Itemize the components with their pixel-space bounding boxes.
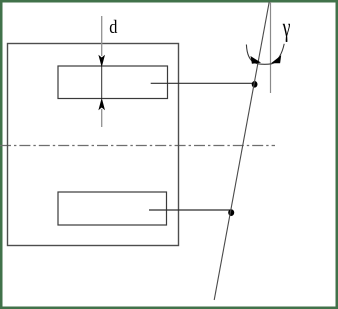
arrowhead up (d dimension, tip on slot bottom edge)	[98, 98, 105, 110]
dimension line d (vertical extension line)	[101, 16, 103, 56]
angle arc gamma	[246, 44, 284, 64]
arrowhead right (points left at vertical reference line)	[271, 55, 281, 63]
dimension line d (segment across slot)	[101, 67, 103, 99]
rotor core body rectangle	[8, 44, 179, 246]
vertical reference line	[270, 2, 272, 93]
label gamma	[283, 24, 290, 42]
label d	[110, 20, 117, 33]
leader line from slot 1	[151, 82, 254, 84]
slot 1 (upper slot)	[58, 66, 168, 99]
node dot 2 on skewed line	[228, 209, 234, 216]
node dot 1 on skewed line	[252, 81, 258, 88]
leader line from slot 2	[149, 209, 231, 211]
slot 2 (lower slot)	[58, 192, 167, 225]
skewed slot axis line	[214, 2, 269, 300]
arrowhead left (points right at skewed line)	[251, 56, 262, 64]
arrowhead down (d dimension, tip on slot top edge)	[98, 55, 105, 67]
centerline (horizontal dash-dot axis)	[0, 145, 275, 147]
